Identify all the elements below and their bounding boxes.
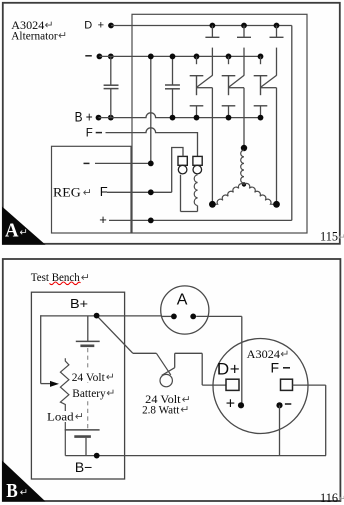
svg-text:F: F [86, 127, 93, 139]
svg-text:↵: ↵ [81, 272, 90, 284]
svg-text:B−: B− [75, 459, 92, 475]
svg-text:F: F [271, 360, 280, 376]
svg-text:Load: Load [47, 410, 74, 424]
svg-text:+: + [226, 396, 235, 413]
svg-text:F: F [100, 184, 108, 199]
svg-text:116: 116 [320, 491, 338, 505]
svg-text:Battery: Battery [72, 386, 105, 400]
svg-text:↵: ↵ [20, 488, 28, 499]
svg-text:↵: ↵ [339, 494, 344, 504]
svg-text:↵: ↵ [83, 187, 92, 199]
svg-text:B+: B+ [70, 296, 88, 311]
svg-text:115: 115 [320, 229, 338, 243]
svg-text:REG: REG [53, 185, 81, 199]
svg-text:D: D [217, 360, 229, 379]
svg-text:Alternator: Alternator [11, 28, 57, 42]
svg-text:↵: ↵ [280, 349, 289, 361]
svg-text:↵: ↵ [106, 371, 115, 383]
svg-text:↵: ↵ [58, 30, 67, 42]
svg-text:B +: B + [75, 109, 93, 125]
svg-text:+: + [230, 360, 240, 379]
svg-text:↵: ↵ [20, 228, 28, 239]
svg-text:↵: ↵ [75, 411, 84, 423]
svg-text:A: A [177, 292, 188, 309]
svg-text:+: + [98, 20, 104, 32]
svg-text:D: D [84, 20, 92, 32]
svg-text:+: + [99, 212, 107, 227]
svg-text:↵: ↵ [338, 232, 344, 242]
svg-text:24 Volt: 24 Volt [72, 370, 106, 384]
svg-text:↵: ↵ [180, 404, 189, 416]
svg-text:↵: ↵ [106, 388, 115, 400]
svg-text:B: B [6, 480, 18, 502]
svg-text:A: A [5, 220, 19, 242]
svg-text:2.8 Watt: 2.8 Watt [142, 403, 180, 417]
